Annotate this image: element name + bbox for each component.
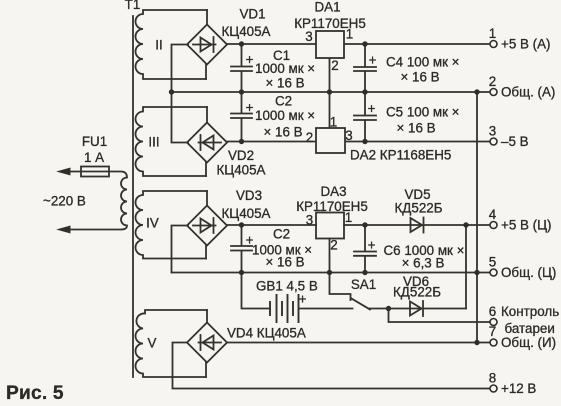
wire DA3 out to terminal 4 — [344, 224, 490, 226]
wire VD1 out to DA1 — [227, 43, 316, 45]
bridge rectifier VD1 — [187, 25, 227, 65]
svg-text:Рис. 5: Рис. 5 — [6, 383, 64, 404]
svg-text:+: + — [368, 101, 376, 116]
fuse FU1 — [81, 167, 109, 177]
svg-text:1000 мк ×: 1000 мк × — [255, 61, 315, 76]
svg-text:GB1 4,5 В: GB1 4,5 В — [256, 279, 318, 294]
svg-text:× 6,3 В: × 6,3 В — [402, 256, 445, 271]
winding I (primary) — [69, 172, 127, 230]
svg-text:× 16 В: × 16 В — [396, 121, 435, 136]
ground rail C — [172, 272, 491, 274]
svg-text:+: + — [246, 233, 254, 248]
switch SA1 blade — [352, 299, 371, 310]
bridge rectifier VD2 — [187, 123, 227, 163]
output terminals 1-8 — [490, 41, 497, 393]
svg-text:1 А: 1 А — [84, 150, 104, 165]
wire DA3 pin2 and switch feed — [330, 239, 351, 301]
svg-text:КД522Б: КД522Б — [395, 201, 443, 216]
svg-text:Контроль: Контроль — [501, 304, 559, 319]
bridge rectifier VD4 — [187, 323, 227, 363]
svg-text:IV: IV — [146, 216, 159, 231]
svg-text:Общ. (И): Общ. (И) — [501, 335, 556, 350]
capacitor C4 — [354, 44, 376, 116]
capacitor C2 — [231, 92, 252, 142]
winding IV — [136, 191, 208, 259]
svg-text:FU1: FU1 — [82, 134, 107, 149]
svg-text:Общ. (А): Общ. (А) — [501, 85, 555, 100]
wire VD4 left to +12V line — [173, 343, 491, 389]
svg-text:С2: С2 — [273, 227, 290, 242]
svg-text:–5 В: –5 В — [501, 134, 529, 149]
svg-text:+: + — [368, 238, 376, 253]
regulator DA1 — [316, 31, 344, 58]
svg-text:6: 6 — [489, 304, 496, 319]
svg-text:+: + — [246, 100, 254, 115]
wire VD4 out to terminal 7 — [227, 342, 490, 344]
diode VD6 — [410, 302, 422, 316]
wire VD1 left to ground — [172, 45, 189, 143]
svg-text:2: 2 — [330, 238, 337, 253]
svg-text:2: 2 — [306, 130, 313, 145]
svg-text:SA1: SA1 — [351, 277, 376, 292]
svg-text:8: 8 — [489, 371, 496, 386]
svg-text:× 16 В: × 16 В — [265, 76, 304, 91]
svg-text:4: 4 — [489, 207, 497, 222]
svg-text:+5 В (Ц): +5 В (Ц) — [501, 218, 551, 233]
svg-text:DA2 КР1168ЕН5: DA2 КР1168ЕН5 — [350, 148, 451, 163]
wire to terminal 6 (battery control) — [389, 309, 491, 323]
svg-text:батареи: батареи — [505, 321, 555, 336]
svg-text:1000 мк ×: 1000 мк × — [255, 108, 315, 123]
wire winding IV to VD3 top — [206, 191, 208, 206]
ground rail A — [172, 91, 491, 93]
regulator DA2 — [316, 128, 345, 153]
svg-text:1: 1 — [489, 26, 496, 41]
battery GB1 wires — [242, 273, 353, 309]
svg-text:VD2: VD2 — [228, 148, 254, 163]
svg-text:× 16 В: × 16 В — [265, 255, 304, 270]
wire DA1 out to terminal 1 — [344, 43, 490, 45]
svg-text:II: II — [155, 38, 162, 53]
capacitor C1 — [231, 44, 252, 92]
bridge rectifier VD3 — [187, 206, 227, 246]
svg-text:3: 3 — [345, 128, 352, 143]
svg-text:× 16 В: × 16 В — [263, 125, 302, 140]
svg-text:3: 3 — [489, 124, 496, 139]
wire winding II to VD1 bottom — [205, 64, 207, 79]
wire DA1 pin2 / DA2 pin1 — [329, 58, 331, 128]
regulator DA3 — [316, 213, 344, 239]
capacitor C2b — [231, 225, 252, 273]
svg-text:2: 2 — [331, 58, 338, 73]
svg-text:5: 5 — [489, 255, 496, 270]
arrow top (~220V line) — [58, 168, 70, 175]
wire winding IV to VD3 bottom — [205, 245, 207, 259]
svg-text:VD3: VD3 — [236, 188, 262, 203]
arrow bottom (~220V line) — [58, 226, 70, 233]
branch down from terminal 4 node — [465, 225, 467, 309]
svg-text:+12 В: +12 В — [501, 381, 536, 396]
svg-text:С4 100 мк ×: С4 100 мк × — [386, 55, 460, 70]
svg-text:VD4 КЦ405А: VD4 КЦ405А — [227, 326, 306, 341]
capacitor C6 — [354, 225, 376, 273]
wire VD3 out to DA3 — [227, 224, 316, 226]
svg-text:VD1: VD1 — [239, 7, 265, 22]
battery GB1 plates — [270, 295, 299, 322]
svg-text:КЦ405А: КЦ405А — [222, 24, 271, 39]
wire winding III to VD2 top — [206, 107, 208, 123]
capacitor C5 — [354, 116, 376, 142]
svg-text:DA3: DA3 — [320, 184, 346, 199]
svg-text:2: 2 — [489, 74, 496, 89]
transformer T1 core — [132, 16, 134, 377]
svg-text:+: + — [299, 292, 307, 307]
svg-text:КД522Б: КД522Б — [393, 285, 441, 300]
wire winding V to VD4 bottom — [205, 362, 207, 377]
svg-text:~220 В: ~220 В — [43, 194, 86, 209]
diode VD5 — [411, 218, 423, 232]
svg-text:+: + — [246, 52, 254, 67]
wire VD2 out to DA2 — [227, 141, 316, 143]
winding V — [136, 310, 208, 377]
svg-text:1: 1 — [330, 115, 337, 130]
wire winding V to VD4 top — [206, 310, 208, 323]
svg-text:III: III — [148, 135, 159, 150]
svg-text:1: 1 — [346, 27, 353, 42]
wire DA2 out to terminal 3 — [345, 141, 490, 143]
svg-text:× 16 В: × 16 В — [400, 70, 439, 85]
svg-text:С5 100 мк ×: С5 100 мк × — [386, 105, 460, 120]
svg-text:Т1: Т1 — [125, 0, 141, 12]
svg-text:7: 7 — [489, 324, 496, 339]
svg-text:+5 В (А): +5 В (А) — [501, 37, 551, 52]
wire SA1 to VD6 — [370, 308, 467, 310]
svg-text:3: 3 — [305, 29, 312, 44]
winding III — [136, 107, 208, 176]
winding II — [136, 10, 208, 79]
long common vertical — [476, 92, 478, 343]
svg-text:С2: С2 — [275, 94, 292, 109]
svg-text:1: 1 — [345, 210, 352, 225]
svg-text:+: + — [369, 53, 377, 68]
wire winding II to VD1 top — [206, 10, 208, 25]
svg-text:КЦ405А: КЦ405А — [217, 163, 266, 178]
wire winding III to VD2 bottom — [205, 163, 207, 177]
svg-text:КЦ405А: КЦ405А — [222, 206, 271, 221]
svg-text:DA1: DA1 — [314, 0, 340, 15]
svg-text:Общ. (Ц): Общ. (Ц) — [501, 265, 556, 280]
svg-text:3: 3 — [306, 213, 313, 228]
wire VD3 left to rail C — [172, 226, 189, 273]
svg-text:V: V — [148, 336, 157, 351]
